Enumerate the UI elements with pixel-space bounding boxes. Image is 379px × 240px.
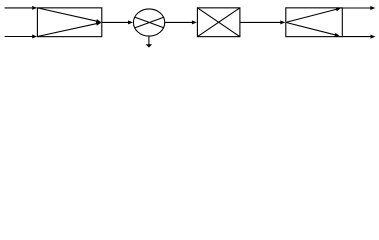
B2 cross diagonal 2 <box>197 8 240 37</box>
mixer cross line 2 <box>135 17 164 28</box>
B3 upper diagonal arrow <box>286 7 341 22</box>
box B1 (input combiner) <box>37 8 101 37</box>
mixer cross line 1 <box>135 17 164 28</box>
box B2 (channel) <box>197 8 240 37</box>
mixer ellipse U1 <box>133 9 164 36</box>
mixer output down arrow <box>146 36 152 47</box>
wire mixer to B2 <box>165 20 197 24</box>
wire B1 to mixer <box>102 20 133 24</box>
wire B2 to B3 <box>240 20 285 24</box>
output bottom arrow <box>341 35 376 39</box>
B2 cross diagonal 1 <box>197 8 240 37</box>
box B3 (output splitter) <box>286 8 343 37</box>
B1 lower diagonal arrow <box>37 22 101 37</box>
output top arrow <box>341 6 375 10</box>
input top arrow <box>5 6 38 10</box>
input bottom arrow <box>5 35 38 39</box>
B3 lower diagonal arrow <box>286 22 340 36</box>
B1 upper diagonal arrow <box>37 8 101 23</box>
